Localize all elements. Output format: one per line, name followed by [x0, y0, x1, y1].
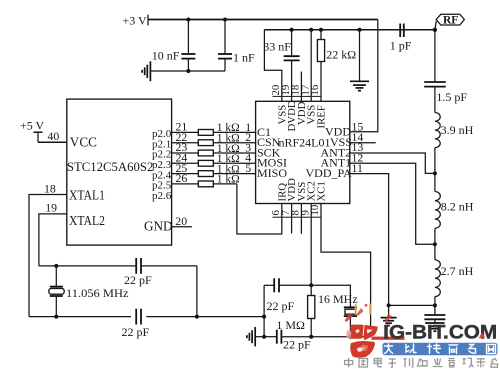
inductor 2.7nH — [435, 260, 474, 297]
svg-text:GND: GND — [144, 218, 173, 233]
rotated top pin numbers 20 19 18 17 16 — [270, 84, 321, 95]
wire XC1 bottom row — [264, 336, 277, 338]
wire +3V rail — [148, 19, 378, 21]
node junction crystal bottom — [54, 315, 58, 319]
wire +3V drop to VDD pin15 — [350, 20, 378, 132]
wire pin18 stub — [300, 72, 302, 102]
svg-text:18: 18 — [44, 182, 56, 196]
resistor R6 1k row6 — [172, 171, 240, 187]
node junction 1M bottom — [309, 335, 313, 339]
svg-text:20: 20 — [175, 214, 187, 228]
wire XTAL1 bottom row — [29, 316, 131, 318]
resistor 1M — [276, 285, 314, 336]
wire XTAL2 to left — [39, 214, 67, 266]
node +3V label — [123, 14, 149, 28]
node junction ground riser joint — [262, 315, 266, 319]
MCU U1 STC12C5A60S2 — [67, 99, 172, 245]
wire bottom pin number underlines — [273, 216, 321, 218]
capacitor 10nF — [152, 20, 196, 72]
svg-text:3.9 nH: 3.9 nH — [441, 123, 474, 137]
wire — [434, 297, 436, 315]
ground (down) under rail — [350, 81, 369, 90]
rotated bottom pin labels IRQ VDD VSS XC2 XC1 — [276, 178, 327, 202]
capacitor 22pF top — [124, 258, 152, 287]
svg-text:XC1: XC1 — [316, 181, 328, 201]
wire pin13 ANT2 — [350, 140, 435, 173]
wire XTAL1 to left — [29, 195, 67, 317]
watermark red wedge in O — [479, 332, 486, 338]
node junction cap bottoms — [186, 69, 190, 73]
svg-text:VDD_PA: VDD_PA — [306, 166, 353, 180]
node junction crystal top — [54, 264, 58, 268]
node junction VDD_PA drop — [387, 303, 391, 307]
svg-text:VDD: VDD — [325, 125, 351, 139]
svg-text:33 nF: 33 nF — [263, 40, 291, 54]
svg-text:1 pF: 1 pF — [390, 39, 412, 53]
wire pin11 VDD_PA — [350, 161, 435, 306]
svg-text:22 kΩ: 22 kΩ — [326, 48, 356, 62]
node RF tag — [435, 14, 465, 30]
node +5V label and symbol — [20, 119, 45, 143]
watermark blue box — [383, 343, 498, 355]
node junction pin17 tap on VSS rail — [309, 28, 313, 32]
watermark bottom gray text 中国电子制造业资讯平台 — [345, 358, 498, 368]
node junction wrap joint — [195, 315, 199, 319]
watermark blue box text 大比特商务网 — [385, 344, 496, 354]
node junction ANT2 — [433, 171, 437, 175]
wire ground riser — [263, 285, 265, 336]
svg-text:2.7 nH: 2.7 nH — [441, 264, 474, 278]
wire +5V to VCC — [38, 141, 67, 143]
svg-text:VCC: VCC — [70, 134, 97, 149]
inductor 8.2nH — [435, 192, 474, 229]
label pin 20 GND stub — [172, 214, 192, 228]
svg-text:16 MHz: 16 MHz — [318, 292, 358, 306]
rotated bottom pin numbers 6 7 8 9 10 — [270, 205, 321, 216]
svg-text:+5 V: +5 V — [20, 119, 45, 133]
wire pin10 XC1 route — [321, 204, 371, 337]
MCU port labels p2.0-p2.6 — [152, 128, 172, 202]
svg-text:22 pF: 22 pF — [122, 325, 150, 339]
ground (left-pointing) bottom — [247, 327, 264, 346]
inductor 3.9nH — [435, 113, 474, 148]
svg-text:10 nF: 10 nF — [152, 49, 180, 63]
svg-text:11.056 MHz: 11.056 MHz — [66, 286, 129, 300]
wire RF chain main line — [434, 30, 436, 82]
rotated top pin labels VSS DVDD VDD VSS IREF — [276, 100, 327, 131]
capacitor 1pF — [390, 24, 412, 53]
node junction C1 tap on +3V rail — [186, 18, 190, 22]
wire p2.5 row to IRQ — [237, 184, 282, 234]
capacitor 22pF (XC1) — [277, 330, 311, 352]
svg-text:IG-BIT.COM: IG-BIT.COM — [383, 322, 497, 343]
wire VSS rail — [264, 29, 435, 31]
svg-text:1 nF: 1 nF — [233, 50, 255, 64]
wire XC2 node row — [264, 284, 270, 286]
svg-text:p2.6: p2.6 — [152, 190, 172, 202]
node junction ANT1 — [433, 242, 437, 246]
resistor R1 1k row1 — [172, 120, 256, 136]
wire rail left step to pin20 — [264, 30, 281, 102]
capacitor 1.5pF — [424, 82, 467, 113]
resistor 22k (IREF) — [317, 30, 356, 102]
wire wrap down — [196, 266, 198, 317]
node junction ground-XC1 row — [262, 335, 266, 339]
resistor R3 1k row3 — [172, 140, 256, 156]
node junction C2 tap on +3V rail — [223, 18, 227, 22]
ground (down) below VDD_PA node — [381, 305, 397, 325]
node junction ground tap on VSS rail — [358, 28, 362, 32]
wire pin12 ANT1 — [350, 151, 435, 245]
svg-text:26: 26 — [176, 171, 188, 185]
wire pin7 stub — [291, 204, 293, 234]
svg-text:40: 40 — [48, 129, 60, 143]
crystal Y1 11.056MHz — [49, 266, 129, 317]
node junction RF tap — [433, 28, 437, 32]
svg-text:+3 V: +3 V — [123, 14, 148, 28]
svg-text:11: 11 — [352, 161, 363, 175]
svg-text:19: 19 — [45, 200, 57, 214]
svg-text:22 pF: 22 pF — [283, 338, 311, 352]
node junction crystal Y2 bottom — [348, 335, 352, 339]
capacitor 33nF (DVDD) — [263, 30, 299, 102]
svg-text:XTAL1: XTAL1 — [69, 188, 105, 203]
resistor R2 1k row2 — [172, 130, 256, 146]
svg-text:MISO: MISO — [257, 166, 287, 180]
resistor R4 1k row4 — [172, 151, 256, 167]
svg-text:1 MΩ: 1 MΩ — [276, 318, 305, 332]
svg-text:8.2 nH: 8.2 nH — [441, 200, 474, 214]
wire — [434, 228, 436, 259]
wire pin17 VSS — [310, 30, 312, 102]
wire rail ground drop — [359, 30, 361, 82]
svg-text:22 pF: 22 pF — [267, 299, 295, 313]
node junction 33nF tap on VSS rail — [290, 28, 294, 32]
wire cap bottoms to ground — [150, 70, 225, 72]
svg-text:22 pF: 22 pF — [124, 273, 152, 287]
svg-text:XTAL2: XTAL2 — [69, 213, 105, 228]
RF module U2 nRF24L01 — [256, 101, 350, 203]
svg-text:5: 5 — [245, 161, 251, 175]
wire pin9 XC2 drop — [310, 204, 312, 286]
watermark red logo glyph — [346, 325, 404, 358]
wire pin14 VSS stub — [350, 130, 376, 144]
watermark sparkles — [345, 304, 393, 323]
crystal Y2 16MHz — [344, 307, 357, 336]
node junction XC2 — [309, 283, 313, 287]
svg-text:1.5 pF: 1.5 pF — [436, 90, 467, 104]
capacitor 22pF bottom — [122, 309, 150, 339]
node junction 22k tap on VSS rail — [319, 28, 323, 32]
svg-text:RF: RF — [443, 14, 458, 26]
resistor R5 1k row5 — [172, 161, 256, 177]
wire XTAL2 row — [39, 265, 131, 267]
wire pin8 stub — [300, 204, 302, 234]
node junction VDD_PA join — [433, 303, 437, 307]
capacitor 1nF — [218, 20, 255, 72]
svg-text:IREF: IREF — [316, 105, 328, 128]
svg-text:STC12C5A60S2: STC12C5A60S2 — [67, 159, 153, 174]
wire — [434, 148, 436, 192]
wire top pin number underlines — [273, 95, 321, 97]
ground (down) antenna base — [425, 323, 444, 331]
capacitor at antenna base — [424, 315, 445, 323]
ground (left-pointing) top-left — [142, 61, 150, 81]
capacitor 22pF (XC2) — [267, 278, 295, 313]
